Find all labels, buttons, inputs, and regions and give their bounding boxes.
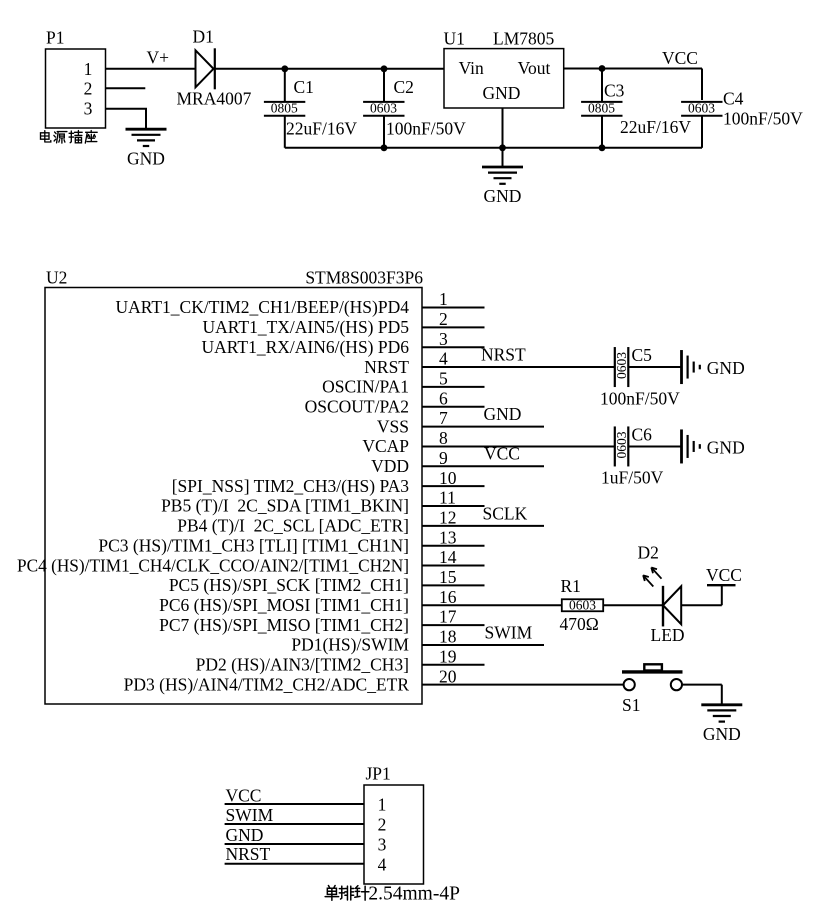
svg-text:4: 4 [439,349,448,369]
svg-text:MRA4007: MRA4007 [177,89,252,109]
svg-text:0603: 0603 [569,597,596,612]
svg-text:D1: D1 [193,27,214,47]
svg-text:UART1_TX/AIN5/(HS) PD5: UART1_TX/AIN5/(HS) PD5 [202,317,409,337]
svg-text:PD2 (HS)/AIN3/[TIM2_CH3]: PD2 (HS)/AIN3/[TIM2_CH3] [196,655,409,675]
svg-text:PB4 (T)/I 2C_SCL [ADC_ETR]: PB4 (T)/I 2C_SCL [ADC_ETR] [177,516,409,536]
svg-text:UART1_RX/AIN6/(HS) PD6: UART1_RX/AIN6/(HS) PD6 [202,337,410,357]
svg-text:S1: S1 [622,695,640,715]
svg-text:10: 10 [439,468,457,488]
svg-text:4: 4 [378,854,387,874]
svg-text:GND: GND [707,358,745,378]
svg-text:0603: 0603 [370,101,397,116]
svg-text:VCC: VCC [706,565,742,585]
svg-text:VCAP: VCAP [362,436,409,456]
svg-text:NRST: NRST [226,844,271,864]
svg-text:2: 2 [439,309,448,329]
svg-text:V+: V+ [147,48,170,68]
svg-text:SWIM: SWIM [226,805,274,825]
svg-text:C3: C3 [604,81,625,101]
svg-text:C1: C1 [294,77,314,97]
svg-text:PC3 (HS)/TIM1_CH3 [TLI] [TIM1_: PC3 (HS)/TIM1_CH3 [TLI] [TIM1_CH1N] [98,535,409,555]
svg-text:OSCOUT/PA2: OSCOUT/PA2 [305,396,409,416]
svg-text:PC4 (HS)/TIM1_CH4/CLK_CCO/AIN2: PC4 (HS)/TIM1_CH4/CLK_CCO/AIN2/[TIM1_CH2… [17,555,409,575]
svg-text:6: 6 [439,388,448,408]
svg-text:LM7805: LM7805 [493,29,555,49]
svg-text:0603: 0603 [688,101,715,116]
svg-text:1: 1 [84,59,93,79]
svg-text:JP1: JP1 [366,764,391,784]
svg-text:5: 5 [439,369,448,389]
svg-text:22uF/16V: 22uF/16V [620,117,691,137]
svg-text:GND: GND [707,437,745,457]
svg-text:16: 16 [439,587,457,607]
svg-text:PD3 (HS)/AIN4/TIM2_CH2/ADC_ETR: PD3 (HS)/AIN4/TIM2_CH2/ADC_ETR [124,674,410,694]
svg-text:15: 15 [439,567,457,587]
svg-text:14: 14 [439,547,457,567]
svg-text:C5: C5 [632,345,653,365]
svg-text:VCC: VCC [484,444,520,464]
svg-text:3: 3 [378,835,387,855]
svg-text:100nF/50V: 100nF/50V [386,118,466,138]
svg-text:7: 7 [439,408,448,428]
svg-text:NRST: NRST [364,357,409,377]
svg-text:2.54mm-4P: 2.54mm-4P [368,884,460,905]
svg-text:OSCIN/PA1: OSCIN/PA1 [322,377,409,397]
svg-text:NRST: NRST [481,344,526,364]
svg-text:C4: C4 [723,89,744,109]
svg-text:PB5 (T)/I 2C_SDA [TIM1_BKIN]: PB5 (T)/I 2C_SDA [TIM1_BKIN] [161,496,409,516]
svg-text:VDD: VDD [371,456,409,476]
svg-text:UART1_CK/TIM2_CH1/BEEP/(HS)PD4: UART1_CK/TIM2_CH1/BEEP/(HS)PD4 [115,297,409,317]
svg-text:20: 20 [439,666,457,686]
svg-text:0805: 0805 [271,101,298,116]
svg-text:0805: 0805 [588,101,615,116]
svg-text:1: 1 [439,289,448,309]
svg-text:PC6 (HS)/SPI_MOSI [TIM1_CH1]: PC6 (HS)/SPI_MOSI [TIM1_CH1] [159,595,409,615]
svg-text:D2: D2 [638,542,659,562]
svg-text:U2: U2 [46,268,67,288]
svg-text:C6: C6 [632,424,653,444]
svg-text:Vin: Vin [459,58,484,78]
svg-text:SWIM: SWIM [485,622,533,642]
svg-text:SCLK: SCLK [483,503,528,523]
svg-text:0603: 0603 [614,352,629,379]
svg-text:100nF/50V: 100nF/50V [600,388,680,408]
svg-text:0603: 0603 [614,431,629,458]
svg-text:22uF/16V: 22uF/16V [286,118,357,138]
svg-text:100nF/50V: 100nF/50V [723,109,803,129]
svg-text:Vout: Vout [518,58,551,78]
svg-text:9: 9 [439,448,448,468]
svg-text:[SPI_NSS] TIM2_CH3/(HS) PA3: [SPI_NSS] TIM2_CH3/(HS) PA3 [172,476,410,496]
svg-text:18: 18 [439,627,457,647]
svg-text:VCC: VCC [662,48,698,68]
svg-text:8: 8 [439,428,448,448]
svg-text:13: 13 [439,527,457,547]
svg-text:470Ω: 470Ω [560,614,599,634]
svg-text:3: 3 [84,99,93,119]
svg-text:STM8S003F3P6: STM8S003F3P6 [305,268,423,288]
svg-text:PC7 (HS)/SPI_MISO [TIM1_CH2]: PC7 (HS)/SPI_MISO [TIM1_CH2] [159,615,409,635]
svg-text:PD1(HS)/SWIM: PD1(HS)/SWIM [291,635,409,655]
svg-text:VSS: VSS [377,416,409,436]
svg-text:1uF/50V: 1uF/50V [601,468,664,488]
svg-text:R1: R1 [561,576,581,596]
svg-text:3: 3 [439,329,448,349]
svg-text:GND: GND [484,404,522,424]
svg-text:GND: GND [703,724,741,744]
svg-text:P1: P1 [46,28,64,48]
svg-text:GND: GND [226,825,264,845]
svg-text:19: 19 [439,646,457,666]
svg-text:GND: GND [484,186,522,206]
svg-text:GND: GND [127,148,165,168]
svg-text:C2: C2 [394,77,414,97]
svg-text:VCC: VCC [226,785,262,805]
svg-text:17: 17 [439,607,457,627]
svg-text:U1: U1 [444,29,465,49]
svg-text:GND: GND [483,83,521,103]
svg-text:12: 12 [439,507,457,527]
svg-text:11: 11 [439,488,456,508]
svg-text:1: 1 [378,795,387,815]
svg-text:LED: LED [651,625,685,645]
svg-text:2: 2 [84,78,93,98]
svg-text:PC5 (HS)/SPI_SCK [TIM2_CH1]: PC5 (HS)/SPI_SCK [TIM2_CH1] [169,575,409,595]
svg-text:2: 2 [378,815,387,835]
